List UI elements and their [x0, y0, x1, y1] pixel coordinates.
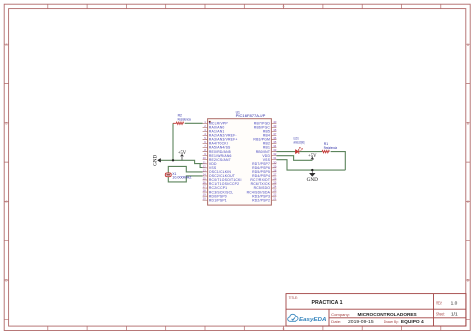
power flag +5V (right) — [308, 154, 317, 161]
ground (left, rotated) — [154, 155, 161, 166]
svg-text:+5V: +5V — [308, 154, 317, 159]
svg-text:EasyEDA: EasyEDA — [299, 317, 326, 323]
svg-text:PRACTICA 1: PRACTICA 1 — [312, 300, 343, 306]
svg-text:B: B — [467, 121, 469, 125]
svg-text:GND: GND — [307, 177, 318, 183]
svg-text:1/1: 1/1 — [451, 312, 458, 318]
wire: GND/+5V rail to VDD pin 11 — [161, 160, 203, 163]
wire: R2 left terminal down to GND/+5V rail — [172, 123, 174, 160]
svg-text:1.0: 1.0 — [451, 300, 458, 306]
wire: crystal top to OSC1 pin 13 — [168, 166, 202, 173]
svg-text:TITLE:: TITLE: — [289, 296, 298, 300]
svg-text:21: 21 — [273, 197, 277, 201]
svg-text:MICROCONTROLADORES: MICROCONTROLADORES — [358, 312, 417, 317]
ground (right) — [307, 170, 318, 183]
svg-text:Drawn By:: Drawn By: — [384, 319, 399, 324]
junction dot at rail/R2 — [172, 159, 174, 161]
svg-text:EQUIPO 4: EQUIPO 4 — [401, 319, 424, 324]
svg-text:Resistencia: Resistencia — [324, 146, 338, 150]
svg-text:GND: GND — [154, 155, 159, 166]
svg-text:20: 20 — [203, 197, 207, 201]
svg-text:RD1/PSP1: RD1/PSP1 — [209, 198, 227, 202]
resistor R2 — [173, 113, 203, 124]
svg-text:Resistencia: Resistencia — [178, 117, 192, 121]
wire: RB0/INT pin 33 through LED1 and R1 to right loop — [276, 152, 345, 171]
EasyEDA logo — [288, 314, 298, 321]
svg-text:6: 6 — [283, 5, 285, 9]
svg-text:B: B — [5, 121, 7, 125]
resistor R1 — [322, 142, 338, 153]
title block — [286, 294, 466, 326]
wire: VDD pin 32 to +5V flag — [276, 156, 312, 161]
wire: crystal bottom to OSC2 pin 14 — [168, 176, 202, 182]
power flag +5V (left) — [178, 151, 187, 161]
svg-text:+5V: +5V — [178, 151, 187, 156]
svg-text:RD2/PSP2: RD2/PSP2 — [252, 198, 270, 202]
wire: branch to VSS pin 12 — [200, 164, 203, 168]
svg-text:PIC16F877A-I/P: PIC16F877A-I/P — [236, 114, 266, 118]
svg-text:10.000MHZ: 10.000MHZ — [172, 176, 192, 180]
svg-text:6: 6 — [283, 327, 285, 331]
junction dot at bottom ground wire — [311, 169, 313, 171]
wire: VSS pin 31 to bottom ground wire — [276, 160, 345, 170]
IC U1 PIC16F877A-I/P — [203, 110, 277, 205]
LED LED1 whiteLED(M3) — [294, 137, 305, 154]
crystal X1 10.000MHZ — [165, 172, 192, 180]
svg-text:2019-09-15: 2019-09-15 — [348, 319, 374, 324]
svg-text:Company:: Company: — [331, 312, 350, 317]
svg-text:Date:: Date: — [331, 319, 341, 324]
svg-text:Sheet:: Sheet: — [436, 312, 445, 317]
svg-text:whiteLED(M3): whiteLED(M3) — [294, 140, 305, 144]
svg-text:REV:: REV: — [436, 300, 442, 305]
